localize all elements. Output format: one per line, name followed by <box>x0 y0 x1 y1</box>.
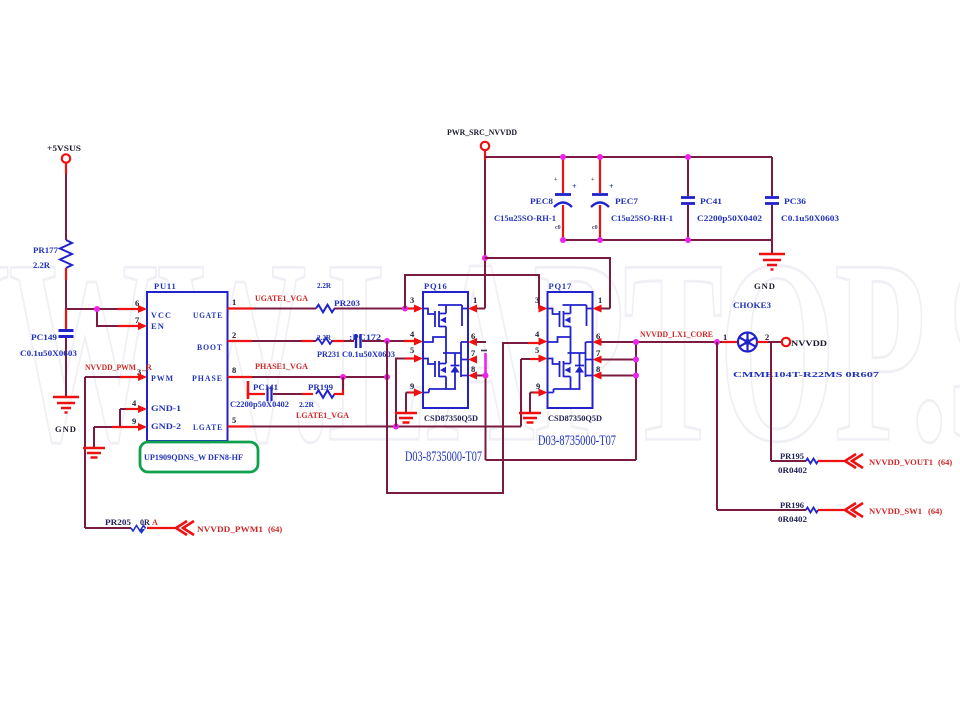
watermark <box>0 206 960 497</box>
wire VCC row <box>66 308 138 310</box>
svg-text:0R0402: 0R0402 <box>778 515 807 524</box>
wire choke to NVVDD terminal <box>757 341 782 343</box>
svg-text:9: 9 <box>536 381 540 391</box>
svg-text:D03-8735000-T07: D03-8735000-T07 <box>405 449 482 465</box>
transistor PQ17 internals <box>539 305 602 397</box>
node junctions switch bus <box>633 339 639 345</box>
svg-text:NVVDD_PWM1: NVVDD_PWM1 <box>197 524 263 534</box>
svg-text:PWR_SRC_NVVDD: PWR_SRC_NVVDD <box>447 127 517 137</box>
svg-text:C0.1u50X0603: C0.1u50X0603 <box>781 214 839 223</box>
svg-text:D03-8735000-T07: D03-8735000-T07 <box>538 433 616 449</box>
svg-text:UGATE: UGATE <box>193 311 223 320</box>
transistor PQ16 box <box>423 292 468 408</box>
capacitor PC172 <box>355 334 357 348</box>
svg-text:9: 9 <box>410 381 414 391</box>
wire GND-1 pin <box>120 409 138 427</box>
svg-text:GND: GND <box>754 281 776 291</box>
svg-text:(64): (64) <box>938 457 952 467</box>
svg-text:C15u25SO-RH-1: C15u25SO-RH-1 <box>611 214 673 223</box>
wire VOUT branch <box>771 342 806 461</box>
svg-text:2.2R: 2.2R <box>317 281 332 290</box>
wire PR195 to chevron <box>818 460 845 462</box>
svg-text:5: 5 <box>535 345 539 355</box>
svg-text:PU11: PU11 <box>154 281 177 291</box>
svg-text:PR205: PR205 <box>105 518 131 527</box>
wire PR205 to chevron <box>147 527 176 529</box>
svg-text:C2200p50X0402: C2200p50X0402 <box>230 400 289 409</box>
wire UGATE link to PQ17 <box>405 275 539 309</box>
wire LX to choke red <box>722 341 738 343</box>
ground PQ16 <box>395 413 417 423</box>
IC U PU11 box <box>147 292 228 441</box>
wire PWM net <box>85 377 138 528</box>
svg-text:PC36: PC36 <box>784 197 806 206</box>
pin numbers PQ17 <box>535 295 602 391</box>
pin arrow PU11 pin6 <box>138 305 147 313</box>
svg-text:CSD87350Q5D: CSD87350Q5D <box>424 414 478 423</box>
transistor PQ17 box <box>548 292 593 408</box>
svg-text:9: 9 <box>132 416 136 426</box>
wire PQ17 pin8 stub <box>602 375 637 377</box>
svg-text:NVVDD_LX1_CORE: NVVDD_LX1_CORE <box>640 329 713 339</box>
node junction BOOT-phase <box>384 338 390 344</box>
svg-text:6: 6 <box>596 331 600 341</box>
capacitor PC141 <box>247 381 250 399</box>
wire BOOT row <box>228 340 415 342</box>
svg-text:PR231: PR231 <box>317 350 340 359</box>
inductor CHOKE3 <box>738 333 757 352</box>
svg-text:_R: _R <box>141 363 152 372</box>
wire top rail <box>485 156 772 158</box>
wire LGATE up to PQ16 pin5 <box>396 359 414 427</box>
capacitor PEC7 <box>599 157 601 193</box>
node +5VSUS terminal <box>62 154 70 162</box>
svg-text:GND-2: GND-2 <box>151 422 181 431</box>
svg-text:c0: c0 <box>592 225 598 231</box>
wire BOOT junction to PQ16 pin4 red <box>404 340 414 342</box>
resistor PR177 <box>60 240 72 268</box>
node junction VCC <box>94 306 100 312</box>
wire PR196 to chevron <box>818 509 845 511</box>
svg-text:8: 8 <box>232 365 236 375</box>
resistor PR231 <box>316 338 332 344</box>
pin arrow PU11 pin3 <box>138 373 147 381</box>
svg-text:VCC: VCC <box>151 311 172 320</box>
svg-text:PWM: PWM <box>151 374 174 383</box>
svg-text:PEC7: PEC7 <box>615 197 638 206</box>
svg-text:1: 1 <box>598 295 602 305</box>
svg-text:GND: GND <box>55 424 77 434</box>
capacitor PEC8 <box>562 157 564 193</box>
svg-text:PR196: PR196 <box>780 501 804 510</box>
wire PQ17 pin7 stub <box>602 359 637 361</box>
node junction PHASE-loop <box>384 374 390 380</box>
svg-text:LGATE: LGATE <box>193 423 223 432</box>
wire LGATE row <box>228 359 539 427</box>
svg-text:5: 5 <box>410 345 414 355</box>
svg-text:PR195: PR195 <box>780 452 804 461</box>
node off-page NVVDD_SW1 <box>845 503 863 517</box>
wire PQ16 switch node magenta <box>484 353 487 377</box>
svg-text:BOOT: BOOT <box>197 343 223 352</box>
wire EN branch <box>97 309 138 326</box>
wire PQ17 pin9 to ground <box>530 393 539 414</box>
svg-text:+: + <box>609 182 614 191</box>
svg-text:UGATE1_VGA: UGATE1_VGA <box>255 294 308 303</box>
wire PQ17 pin6 row to LX <box>602 341 723 343</box>
svg-text:PR177: PR177 <box>33 246 58 255</box>
svg-text:2.2R: 2.2R <box>33 261 50 270</box>
resistor PR196 <box>806 508 818 513</box>
svg-text:NVVDD_VOUT1: NVVDD_VOUT1 <box>869 457 933 467</box>
node junction PHASE-PR199 <box>340 374 346 380</box>
capacitor PC36 <box>771 157 773 196</box>
wire PWR branch to PQ17 pin1 <box>485 258 610 309</box>
wire PQ16 pin9 to ground <box>406 393 414 414</box>
pin arrow PU11 pin7 <box>138 322 147 330</box>
svg-text:UP1909QDNS_W DFN8-HF: UP1909QDNS_W DFN8-HF <box>144 453 243 462</box>
resistor PR205 <box>131 526 146 532</box>
svg-text:PR203: PR203 <box>334 299 360 308</box>
ground PQ17 <box>519 413 541 423</box>
wire bottom rail <box>563 240 772 253</box>
svg-text:CSD87350Q5D: CSD87350Q5D <box>548 414 602 423</box>
wire switch bus vertical <box>635 342 637 460</box>
svg-text:0R: 0R <box>140 518 150 527</box>
svg-text:LGATE1_VGA: LGATE1_VGA <box>296 411 349 420</box>
svg-text:PHASE: PHASE <box>192 374 223 383</box>
node junction pin8 <box>483 373 489 379</box>
svg-text:+: + <box>572 182 577 191</box>
svg-text:(64): (64) <box>268 524 282 534</box>
node off-page NVVDD_PWM1 <box>176 521 194 535</box>
svg-text:A: A <box>152 518 158 527</box>
wire phase loop to PQ17 pin4 <box>387 341 530 493</box>
svg-text:3: 3 <box>410 295 414 305</box>
node junction UGATE <box>402 306 408 312</box>
wire PQ16 pin6 stub <box>477 341 486 343</box>
pin arrow PU11 pin9 <box>138 423 147 431</box>
resistor PR203 <box>316 305 335 313</box>
svg-text:PC41: PC41 <box>700 197 722 206</box>
node NVVDD terminal <box>782 338 790 346</box>
svg-text:C15u25SO-RH-1: C15u25SO-RH-1 <box>494 214 556 223</box>
svg-text:2: 2 <box>765 332 769 342</box>
svg-text:1: 1 <box>723 332 727 342</box>
op pin names PU11 left <box>151 311 223 432</box>
node off-page NVVDD_VOUT1 <box>845 454 863 468</box>
svg-text:6: 6 <box>471 331 475 341</box>
wire PWR_SRC vertical <box>477 151 485 309</box>
wire GND-2 pin <box>94 427 138 448</box>
ground GND-2 small <box>83 448 105 458</box>
svg-text:NVVDD_SW1: NVVDD_SW1 <box>869 506 922 516</box>
svg-text:PEC8: PEC8 <box>530 197 553 206</box>
svg-text:NVVDD_PWM: NVVDD_PWM <box>85 363 136 372</box>
pin numbers PQ16 <box>410 295 477 391</box>
wire below PR177 <box>65 268 67 309</box>
pin arrow PU11 pin4 <box>138 405 147 413</box>
svg-text:(64): (64) <box>928 506 942 516</box>
svg-text:EN: EN <box>151 322 165 331</box>
ground cap bank <box>759 254 785 270</box>
node junction LGATE <box>393 424 399 430</box>
ground GND main <box>53 397 79 413</box>
wire PQ16 pin8 to switch <box>477 376 636 461</box>
wire PQ16 pin7 tick <box>481 350 487 352</box>
wire +5VSUS vertical <box>65 163 67 240</box>
svg-text:PC141: PC141 <box>253 383 278 392</box>
svg-text:2.2R: 2.2R <box>317 333 332 342</box>
node junction SW branch <box>714 339 720 345</box>
svg-text:CMME104T-R22MS 0R607: CMME104T-R22MS 0R607 <box>733 371 880 379</box>
svg-text:+: + <box>554 177 558 183</box>
svg-text:2: 2 <box>232 330 236 340</box>
svg-text:PR199: PR199 <box>308 383 333 392</box>
svg-text:PHASE1_VGA: PHASE1_VGA <box>255 362 308 371</box>
svg-text:8: 8 <box>596 364 600 374</box>
svg-text:+: + <box>591 177 595 183</box>
svg-text:2.2R: 2.2R <box>299 400 315 409</box>
node junction PWR branch <box>482 255 488 261</box>
wire PHASE row <box>228 376 388 378</box>
svg-text:c0: c0 <box>555 225 561 231</box>
svg-text:C2200p50X0402: C2200p50X0402 <box>697 214 762 223</box>
svg-text::PC172: :PC172 <box>349 333 381 342</box>
svg-text:0R0402: 0R0402 <box>778 466 807 475</box>
svg-text:GND-1: GND-1 <box>151 404 181 413</box>
resistor PR199 <box>316 390 335 398</box>
svg-text:PC149: PC149 <box>31 333 57 342</box>
node junctions top rail <box>560 154 566 160</box>
capacitor PC41 <box>687 157 689 196</box>
svg-text:+5VSUS: +5VSUS <box>47 143 81 153</box>
svg-text:3: 3 <box>535 295 539 305</box>
svg-text:CHOKE3: CHOKE3 <box>733 301 771 310</box>
capacitor PC149 <box>65 309 67 329</box>
svg-text:C0.1u50X0603: C0.1u50X0603 <box>20 349 77 358</box>
svg-text:NVVDD: NVVDD <box>791 338 827 348</box>
svg-text:8: 8 <box>471 364 475 374</box>
svg-text:5: 5 <box>232 415 236 425</box>
node junctions bottom rail <box>560 237 566 243</box>
svg-text:PQ17: PQ17 <box>549 281 573 291</box>
wire SW branch <box>717 342 806 510</box>
svg-text:1: 1 <box>232 297 236 307</box>
transistor PQ16 internals <box>414 305 477 397</box>
svg-text:1: 1 <box>473 295 477 305</box>
node PWR_SRC_NVVDD terminal <box>481 142 489 150</box>
svg-text:PQ16: PQ16 <box>424 281 448 291</box>
pin numbers PU11 <box>132 297 236 426</box>
wire UGATE row <box>228 308 415 310</box>
part label box UP1909 <box>140 442 258 472</box>
wire PR199 up to phase <box>334 377 343 394</box>
resistor PR195 <box>806 459 818 464</box>
